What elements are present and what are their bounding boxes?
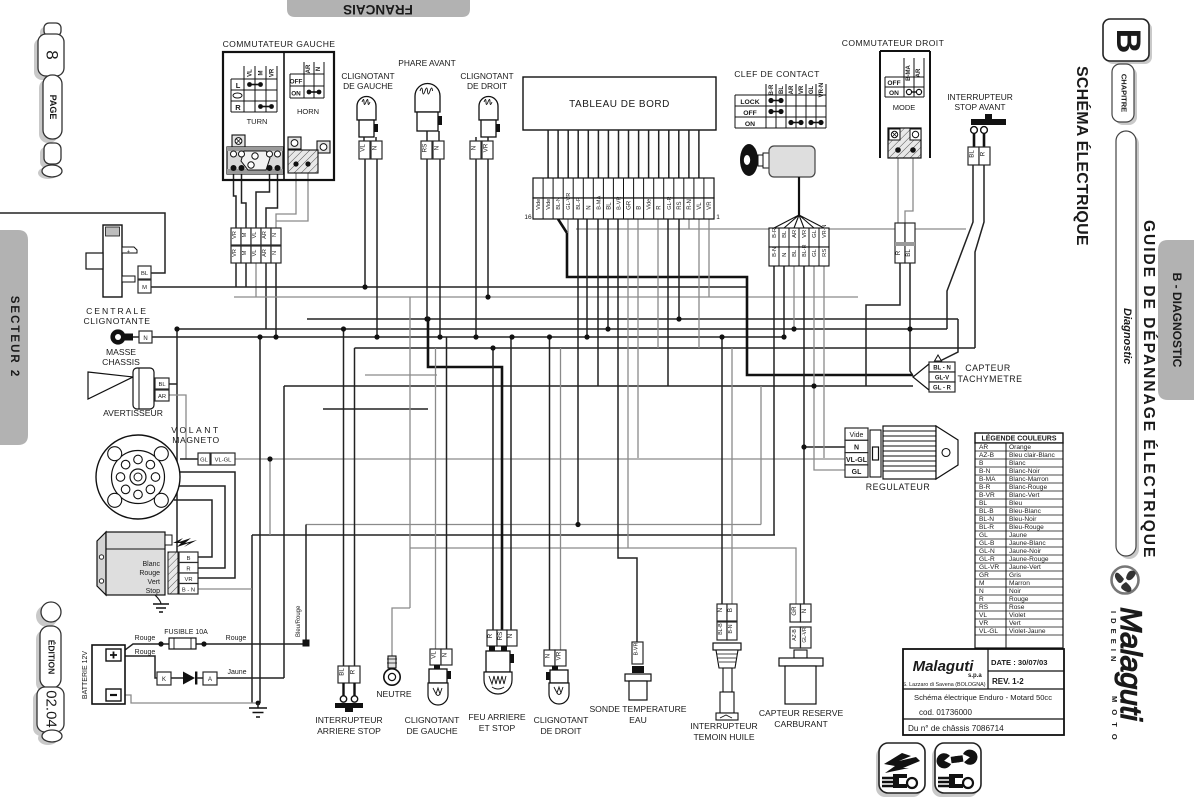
bus: y=329 (177, 328, 947, 330)
wire: tableau columns down (578, 219, 679, 642)
svg-text:Rouge: Rouge (135, 649, 156, 656)
cdi connector (168, 552, 178, 594)
svg-text:Orange: Orange (1009, 444, 1031, 451)
svg-text:Du n° de châssis 7086714: Du n° de châssis 7086714 (908, 724, 1004, 733)
svg-text:CLIGNOTANT: CLIGNOTANT (460, 71, 513, 81)
svg-text:GUIDE DE DÉPANNAGE ÉLECTRIQUE: GUIDE DE DÉPANNAGE ÉLECTRIQUE (1140, 220, 1157, 559)
svg-text:BL - N: BL - N (933, 366, 951, 372)
capteur reserve carburant (fuel sensor) (759, 604, 844, 729)
svg-text:HORN: HORN (297, 107, 319, 116)
interrupteur temoin huile (oil switch) (690, 604, 757, 742)
svg-text:BL: BL (792, 249, 798, 257)
svg-text:TABLEAU DE BORD: TABLEAU DE BORD (569, 99, 670, 110)
svg-text:N: N (782, 253, 788, 257)
svg-text:INTERRUPTEUR: INTERRUPTEUR (315, 715, 382, 725)
svg-text:VR: VR (556, 651, 563, 660)
icon tiles (876, 743, 981, 797)
svg-text:M: M (979, 580, 985, 587)
svg-text:VR: VR (270, 68, 276, 77)
svg-text:CHAPITRE: CHAPITRE (1120, 74, 1129, 112)
svg-text:ON: ON (889, 90, 899, 97)
svg-text:PHARE AVANT: PHARE AVANT (398, 58, 455, 68)
svg-text:Schéma électrique Enduro - Mo: Schéma électrique Enduro - Motard 50cc (914, 693, 1052, 702)
wire: battery minus to ground (121, 695, 258, 703)
svg-text:CLIGNOTANT: CLIGNOTANT (534, 715, 589, 725)
svg-text:B - N: B - N (182, 588, 195, 594)
svg-text:02.04: 02.04 (43, 690, 60, 728)
svg-text:AR: AR (979, 444, 988, 451)
wire: top clignotant droit (476, 159, 488, 337)
key symbol (740, 144, 758, 176)
svg-text:VR: VR (184, 577, 192, 583)
svg-text:Vide: Vide (536, 199, 542, 210)
svg-text:GL-VR: GL-VR (566, 193, 572, 210)
svg-text:B-MA: B-MA (596, 196, 602, 210)
svg-text:B-R: B-R (979, 484, 991, 491)
svg-text:N: N (801, 609, 808, 613)
svg-text:+: + (127, 249, 130, 255)
svg-text:B - DIAGNOSTIC: B - DIAGNOSTIC (1170, 273, 1184, 368)
left connector block (232, 135, 245, 147)
svg-text:B: B (1109, 29, 1147, 54)
wire: bleu/rouge riser (305, 525, 307, 640)
svg-text:GL: GL (812, 229, 818, 238)
svg-text:AZ-B: AZ-B (792, 629, 798, 641)
secteur 2 tab (0, 230, 28, 445)
commutateur droit (right handlebar switch) (842, 38, 945, 263)
bus: B-N y=535 (252, 535, 775, 703)
svg-text:Rouge: Rouge (1009, 596, 1029, 603)
svg-text:GL-N: GL-N (979, 548, 995, 555)
wire: battery to diode (121, 656, 284, 678)
svg-text:OFF: OFF (887, 80, 900, 87)
right switch connector (888, 128, 921, 158)
svg-text:AR: AR (789, 85, 795, 94)
svg-text:M: M (259, 71, 265, 76)
wire: clef columns down (774, 266, 845, 604)
svg-text:VR: VR (707, 201, 713, 210)
svg-text:M: M (242, 232, 248, 237)
inline connector R/BL (895, 223, 905, 263)
svg-text:B-VR: B-VR (979, 492, 995, 499)
svg-text:N: N (372, 146, 379, 150)
svg-text:Marron: Marron (1009, 580, 1030, 587)
svg-text:K: K (162, 677, 166, 683)
svg-text:AVERTISSEUR: AVERTISSEUR (103, 408, 163, 418)
svg-text:R: R (235, 103, 241, 112)
svg-text:N: N (316, 67, 322, 71)
svg-text:B-MA: B-MA (979, 476, 996, 483)
svg-text:VR: VR (802, 230, 808, 238)
electric icon tile (876, 743, 925, 797)
svg-text:AR: AR (158, 394, 166, 400)
svg-text:DATE : 30/07/03: DATE : 30/07/03 (991, 658, 1047, 667)
svg-text:GR: GR (979, 572, 989, 579)
svg-text:B-R: B-R (769, 84, 775, 95)
wire: short gray y=375 (365, 374, 437, 376)
svg-text:Bleu-Noir: Bleu-Noir (1009, 516, 1037, 523)
wire: feu arriere (493, 337, 511, 630)
svg-text:VL: VL (697, 202, 703, 210)
svg-text:AZ-B: AZ-B (979, 452, 995, 459)
svg-text:Vide: Vide (850, 432, 864, 439)
svg-text:RS: RS (677, 201, 683, 209)
svg-text:M: M (142, 285, 147, 291)
phare avant (headlamp) (398, 58, 455, 159)
svg-text:BL-R: BL-R (802, 244, 808, 256)
svg-text:BL: BL (339, 668, 346, 676)
svg-text:BL: BL (969, 150, 976, 158)
cdi ground (155, 595, 161, 604)
svg-text:B: B (637, 206, 643, 210)
svg-text:Malaguti: Malaguti (913, 658, 975, 675)
svg-text:Violet-Jaune: Violet-Jaune (1009, 628, 1046, 635)
horn table (290, 62, 324, 98)
svg-text:FUSIBLE 10A: FUSIBLE 10A (164, 629, 208, 636)
svg-text:BL: BL (779, 86, 785, 94)
svg-text:Bleu-Blanc: Bleu-Blanc (1009, 508, 1042, 515)
svg-text:N: N (507, 634, 514, 638)
svg-text:DE GAUCHE: DE GAUCHE (406, 726, 457, 736)
svg-text:AR: AR (916, 68, 922, 77)
wire: battery plus / fuse / rouge (121, 644, 303, 653)
svg-text:S. Lazzaro di Savena (BOLOGNA): S. Lazzaro di Savena (BOLOGNA) (903, 682, 986, 688)
svg-text:LOCK: LOCK (740, 99, 759, 106)
svg-text:B-R: B-R (772, 228, 778, 238)
svg-text:B-VR: B-VR (617, 196, 623, 209)
svg-text:R: R (980, 151, 987, 156)
svg-text:Gris: Gris (1009, 572, 1022, 579)
svg-text:Rose: Rose (1009, 604, 1025, 611)
svg-text:N: N (272, 251, 278, 255)
svg-text:INTERRUPTEUR: INTERRUPTEUR (947, 92, 1013, 102)
svg-text:N: N (979, 588, 984, 595)
svg-text:16: 16 (524, 214, 532, 221)
svg-text:BL: BL (782, 230, 788, 238)
svg-text:GL-B: GL-B (979, 540, 995, 547)
wire: gray stub at 270 (269, 459, 271, 535)
wire: rear clignotant gauche (435, 348, 437, 649)
bleu/rouge terminal (296, 605, 310, 647)
svg-text:1: 1 (716, 214, 720, 221)
svg-text:L: L (236, 81, 241, 90)
commutateur gauche (left handlebar switch) (223, 39, 336, 180)
edition 02.04 marker (33, 602, 64, 745)
svg-text:CAPTEUR: CAPTEUR (965, 363, 1011, 373)
svg-text:ARRIERE STOP: ARRIERE STOP (317, 726, 381, 736)
bus: y=297 gray (234, 296, 858, 298)
capteur tachymetre (913, 355, 1022, 392)
svg-text:VR: VR (232, 249, 238, 257)
diode K-A (157, 669, 247, 685)
connector rows VR/M/VL/AR/N below left switch (231, 228, 281, 263)
svg-text:GL: GL (812, 248, 818, 257)
svg-text:GR: GR (791, 606, 798, 616)
svg-text:VR-N: VR-N (822, 225, 828, 238)
clignotant de droit (rear right indicator) (534, 650, 589, 736)
clef de contact (ignition switch) (734, 69, 829, 266)
svg-text:Vert: Vert (148, 579, 161, 586)
svg-text:SONDE TEMPERATURE: SONDE TEMPERATURE (589, 704, 686, 714)
svg-text:MASSE: MASSE (106, 347, 136, 357)
svg-text:GL-VR: GL-VR (802, 627, 808, 643)
legend couleurs table (975, 433, 1063, 648)
svg-text:GL - R: GL - R (933, 386, 952, 392)
wire: connector columns down to buses (236, 263, 276, 337)
svg-text:Noir: Noir (1009, 588, 1022, 595)
svg-text:LÉGENDE COULEURS: LÉGENDE COULEURS (981, 434, 1056, 443)
regulateur (845, 426, 958, 492)
svg-text:BL: BL (158, 382, 166, 388)
wire: CDI to magneto (174, 472, 235, 578)
svg-text:Blanc-Marron: Blanc-Marron (1009, 476, 1049, 483)
wire: short dark y=409 (323, 408, 428, 410)
volant magneto (flywheel magneto) (96, 425, 235, 519)
svg-text:Blanc-Rouge: Blanc-Rouge (1009, 484, 1047, 491)
svg-text:N: N (586, 205, 592, 209)
batterie 12V (82, 645, 125, 704)
bus: y=319 (307, 319, 958, 364)
svg-text:BL-B: BL-B (979, 508, 994, 515)
svg-text:Jaune-Vert: Jaune-Vert (1009, 564, 1041, 571)
svg-text:VL-GL: VL-GL (215, 458, 233, 464)
svg-text:GL: GL (979, 532, 988, 539)
bus: ground y=337 (152, 336, 784, 338)
svg-text:GL: GL (852, 469, 862, 476)
svg-text:VL: VL (252, 232, 258, 239)
svg-text:RS: RS (497, 632, 504, 641)
svg-text:Blanc-Noir: Blanc-Noir (1009, 468, 1041, 475)
svg-text:CLIGNOTANT: CLIGNOTANT (341, 71, 394, 81)
svg-text:DE GAUCHE: DE GAUCHE (343, 81, 393, 91)
svg-text:OFF: OFF (743, 110, 757, 117)
svg-text:VL: VL (431, 651, 438, 659)
svg-text:BL-R: BL-R (576, 197, 582, 210)
svg-text:R: R (186, 567, 190, 573)
svg-text:Rouge: Rouge (135, 635, 156, 642)
svg-text:VR-N: VR-N (819, 83, 825, 98)
interrupteur stop avant (front brake switch) (947, 92, 1013, 165)
svg-text:SCHÉMA ÉLECTRIQUE: SCHÉMA ÉLECTRIQUE (1073, 66, 1092, 246)
wire: left switch to connector rows (234, 171, 278, 228)
svg-text:Jaune-Rouge: Jaune-Rouge (1009, 556, 1049, 563)
svg-text:N: N (471, 146, 478, 150)
svg-text:R: R (487, 633, 494, 638)
tableau de bord (dashboard) (523, 77, 720, 221)
svg-text:DE DROIT: DE DROIT (540, 726, 582, 736)
svg-text:Vide: Vide (647, 199, 653, 210)
battery ground (249, 701, 267, 717)
bus: M line y=287 (151, 286, 748, 288)
mechanic icon tile (932, 743, 981, 797)
svg-text:VL: VL (979, 612, 987, 619)
wire: neutre riser (392, 297, 410, 669)
B-diagnostic gray tab (1158, 240, 1194, 400)
svg-text:R: R (657, 205, 663, 210)
svg-text:BL-N: BL-N (556, 197, 562, 210)
chapitre B box (1103, 19, 1152, 559)
svg-text:GL-R: GL-R (667, 196, 673, 209)
wire: top clignotant gauche (365, 159, 377, 337)
svg-text:FEU ARRIERE: FEU ARRIERE (468, 712, 526, 722)
svg-text:REGULATEUR: REGULATEUR (866, 482, 930, 492)
svg-text:N: N (545, 654, 552, 658)
svg-text:GL-V: GL-V (935, 376, 949, 382)
svg-text:Rouge: Rouge (139, 570, 160, 577)
svg-text:PAGE: PAGE (48, 95, 58, 120)
svg-text:N: N (442, 653, 449, 657)
svg-text:CLEF DE CONTACT: CLEF DE CONTACT (734, 69, 820, 79)
sonde temperature eau (water temp sensor) (589, 642, 686, 725)
svg-text:Bleu-Rouge: Bleu-Rouge (1009, 524, 1044, 531)
svg-text:VL: VL (248, 69, 254, 77)
bus: y=548 gray to fuel GR (410, 548, 796, 604)
svg-text:B-VR: B-VR (634, 642, 640, 655)
svg-text:OFF: OFF (290, 79, 303, 86)
feu arriere et stop (tail/stop lamp) (468, 630, 526, 733)
svg-text:RS: RS (979, 604, 989, 611)
svg-text:Bleu/Rouge: Bleu/Rouge (296, 605, 302, 637)
clignotant de gauche (front left indicator) (341, 71, 394, 159)
svg-text:cod. 01736000: cod. 01736000 (919, 708, 972, 717)
svg-text:RS: RS (822, 249, 828, 257)
svg-text:FRANCAIS: FRANCAIS (343, 2, 413, 17)
svg-text:MAGNETO: MAGNETO (172, 435, 220, 445)
fusible 10A (135, 629, 247, 656)
svg-text:ON: ON (745, 121, 755, 128)
wire: rear clignotant droit (549, 337, 551, 650)
svg-text:Jaune-Noir: Jaune-Noir (1009, 548, 1042, 555)
gray link y=229 (576, 228, 966, 230)
svg-text:M O T O: M O T O (1110, 696, 1119, 742)
svg-text:TACHYMETRE: TACHYMETRE (958, 374, 1023, 384)
svg-text:Stop: Stop (146, 588, 161, 595)
svg-text:ÉDITION: ÉDITION (46, 640, 56, 674)
svg-text:R: R (350, 669, 357, 674)
svg-text:Diagnostic: Diagnostic (1121, 308, 1133, 364)
svg-text:VR: VR (483, 143, 490, 152)
svg-text:COMMUTATEUR DROIT: COMMUTATEUR DROIT (842, 38, 945, 48)
svg-text:AR: AR (306, 64, 312, 73)
svg-text:VR: VR (232, 231, 238, 239)
svg-text:N: N (143, 336, 147, 342)
wire: phare avant (427, 159, 440, 337)
svg-text:GR: GR (627, 200, 633, 210)
svg-text:VOLANT: VOLANT (171, 425, 220, 435)
svg-text:Jaune-Blanc: Jaune-Blanc (1009, 540, 1046, 547)
svg-text:COMMUTATEUR GAUCHE: COMMUTATEUR GAUCHE (223, 39, 336, 49)
bus: bleu/rouge y=524.5 gray (306, 386, 761, 525)
svg-text:BL-N: BL-N (979, 516, 994, 523)
svg-text:CLIGNOTANT: CLIGNOTANT (405, 715, 460, 725)
turn table (231, 66, 277, 112)
svg-text:REV. 1-2: REV. 1-2 (992, 677, 1024, 686)
svg-text:GL: GL (200, 458, 209, 464)
svg-text:BL: BL (606, 202, 612, 210)
svg-text:B: B (727, 608, 734, 612)
wire: oil switch risers (721, 337, 723, 604)
malaguti margin logo (1109, 567, 1147, 743)
wire: jaune riser (283, 386, 285, 678)
svg-text:SECTEUR 2: SECTEUR 2 (8, 296, 20, 379)
thick: BL-N tableau to tachymetre (558, 219, 913, 375)
svg-text:Jaune: Jaune (1009, 532, 1027, 539)
svg-text:CAPTEUR RESERVE: CAPTEUR RESERVE (759, 708, 844, 718)
wire: centrale BL to page edge (0, 213, 165, 273)
svg-text:CLIGNOTANTE: CLIGNOTANTE (83, 316, 150, 326)
page 8 marker (34, 23, 64, 179)
svg-text:BL: BL (979, 500, 987, 507)
svg-text:TEMOIN HUILE: TEMOIN HUILE (693, 732, 754, 742)
svg-text:MODE: MODE (893, 103, 916, 112)
svg-text:BL: BL (141, 271, 149, 277)
svg-text:AR: AR (792, 230, 798, 238)
svg-text:BL-B: BL-B (718, 623, 724, 635)
svg-text:GL: GL (809, 86, 815, 95)
wire: rear stop switch (344, 329, 355, 666)
clignotant de droit (front right indicator) (460, 71, 513, 159)
svg-text:ON: ON (291, 91, 301, 98)
neutre (neutral switch ring) (376, 656, 412, 699)
svg-text:BL-R: BL-R (979, 524, 994, 531)
svg-text:CENTRALE: CENTRALE (86, 306, 148, 316)
svg-text:N: N (854, 445, 859, 452)
title block (903, 649, 1065, 735)
svg-text:B-N: B-N (979, 468, 991, 475)
svg-text:GL-VR: GL-VR (979, 564, 999, 571)
bus: VL-GL y=459 gray (235, 458, 845, 460)
spark symbol (165, 535, 172, 545)
clef connector rows (769, 225, 829, 266)
svg-text:Blanc: Blanc (142, 561, 160, 568)
svg-text:B: B (979, 460, 984, 467)
wire: avertisseur (169, 329, 177, 594)
svg-text:VR: VR (979, 620, 988, 627)
svg-text:B: B (187, 556, 191, 562)
svg-text:GL-R: GL-R (979, 556, 995, 563)
svg-text:Blanc: Blanc (1009, 460, 1026, 467)
svg-text:Rouge: Rouge (226, 635, 247, 642)
svg-text:CHASSIS: CHASSIS (102, 357, 140, 367)
svg-text:BL: BL (905, 249, 912, 257)
bus: stop y=348 (355, 347, 976, 349)
avertisseur (horn) (88, 368, 169, 418)
svg-text:R-N: R-N (687, 199, 693, 210)
wire: main ground vertical (259, 337, 261, 703)
svg-text:Blanc-Vert: Blanc-Vert (1009, 492, 1040, 499)
svg-text:CARBURANT: CARBURANT (774, 719, 828, 729)
bus: y=386 (284, 385, 913, 387)
svg-text:RS: RS (422, 144, 429, 153)
svg-text:B-MA: B-MA (906, 65, 912, 81)
svg-text:B-N: B-N (772, 247, 778, 257)
svg-text:Vert: Vert (1009, 620, 1021, 627)
svg-text:VR: VR (799, 85, 805, 94)
svg-text:STOP AVANT: STOP AVANT (954, 102, 1005, 112)
svg-text:BATTERIE 12V: BATTERIE 12V (82, 651, 89, 699)
svg-text:VL: VL (360, 144, 367, 152)
svg-text:N: N (717, 608, 724, 612)
svg-text:8: 8 (43, 50, 62, 59)
svg-text:N: N (272, 233, 278, 237)
clignotant de gauche (rear left indicator) (405, 649, 460, 736)
interrupteur arriere stop (rear brake switch) (315, 666, 382, 736)
svg-text:VL: VL (252, 250, 258, 257)
CDI unit (97, 532, 198, 612)
svg-text:Jaune: Jaune (227, 669, 246, 676)
wire: stop avant down (947, 165, 984, 348)
svg-text:AR: AR (262, 231, 268, 239)
